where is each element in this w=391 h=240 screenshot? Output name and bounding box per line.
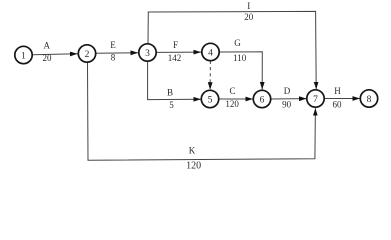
svg-text:8: 8 bbox=[367, 95, 372, 105]
node 6 bbox=[253, 90, 270, 107]
svg-text:K: K bbox=[189, 146, 196, 156]
svg-text:142: 142 bbox=[168, 53, 182, 63]
wire K from node 2 bottom down, right, up to node 7 bbox=[88, 62, 316, 160]
node 4 bbox=[202, 43, 219, 60]
svg-text:90: 90 bbox=[282, 100, 292, 110]
label K bbox=[189, 146, 196, 156]
svg-text:D: D bbox=[284, 86, 291, 96]
node 5 bbox=[201, 90, 218, 107]
svg-text:H: H bbox=[334, 86, 341, 96]
svg-text:6: 6 bbox=[260, 95, 265, 105]
value 90 (D) bbox=[282, 100, 292, 110]
label I bbox=[247, 1, 250, 11]
svg-text:5: 5 bbox=[208, 95, 213, 105]
label B bbox=[167, 87, 173, 97]
svg-text:20: 20 bbox=[244, 12, 254, 22]
svg-text:110: 110 bbox=[233, 53, 247, 63]
value 8 (E) bbox=[111, 52, 116, 62]
wire G from node 4 right then down to node 6 bbox=[220, 52, 263, 90]
svg-text:8: 8 bbox=[111, 52, 116, 62]
value 120 (K) bbox=[186, 160, 201, 171]
label C bbox=[229, 86, 235, 96]
svg-text:5: 5 bbox=[169, 100, 174, 110]
svg-text:E: E bbox=[110, 40, 116, 50]
svg-text:F: F bbox=[173, 40, 178, 50]
svg-text:4: 4 bbox=[208, 48, 213, 58]
dummy dashed arrow from node 4 to node 5 bbox=[209, 61, 211, 90]
svg-text:3: 3 bbox=[145, 49, 150, 59]
label H bbox=[334, 86, 341, 96]
node 2 bbox=[78, 45, 95, 62]
wire D from node 6 to node 7 bbox=[271, 98, 307, 100]
label D bbox=[284, 86, 291, 96]
value 110 (G) bbox=[233, 53, 247, 63]
node 8 bbox=[360, 90, 377, 107]
value 20 (A) bbox=[43, 53, 53, 63]
label E bbox=[110, 40, 116, 50]
svg-text:G: G bbox=[234, 38, 241, 48]
svg-text:60: 60 bbox=[333, 99, 343, 109]
wire F from node 3 to node 4 bbox=[157, 51, 201, 53]
node 3 bbox=[139, 44, 156, 61]
svg-text:1: 1 bbox=[21, 51, 26, 61]
value 120 (C) bbox=[225, 99, 239, 109]
svg-text:B: B bbox=[167, 87, 173, 97]
wire A from node 1 to node 2 bbox=[33, 54, 78, 55]
label A bbox=[44, 41, 51, 51]
wire I from node 3 top over to node 7 bbox=[148, 11, 316, 89]
node 1 bbox=[15, 46, 32, 63]
value 60 (H) bbox=[333, 99, 343, 109]
svg-text:C: C bbox=[229, 86, 235, 96]
svg-text:120: 120 bbox=[186, 160, 201, 171]
value 5 (B) bbox=[169, 100, 174, 110]
value 20 (I) bbox=[244, 12, 254, 22]
svg-text:A: A bbox=[44, 41, 51, 51]
svg-text:I: I bbox=[247, 1, 250, 11]
wire E from node 2 to node 3 bbox=[96, 52, 138, 55]
node 7 bbox=[307, 90, 324, 107]
wire B from node 3 bottom down then right to node 5 bbox=[148, 61, 201, 100]
label F bbox=[173, 40, 178, 50]
svg-text:7: 7 bbox=[313, 95, 318, 105]
svg-text:20: 20 bbox=[43, 53, 53, 63]
label G bbox=[234, 38, 241, 48]
wire C from node 5 to node 6 bbox=[219, 98, 253, 100]
value 142 (F) bbox=[168, 53, 182, 63]
svg-text:120: 120 bbox=[225, 99, 239, 109]
svg-text:2: 2 bbox=[85, 50, 90, 60]
wire H from node 7 to node 8 bbox=[324, 98, 360, 100]
